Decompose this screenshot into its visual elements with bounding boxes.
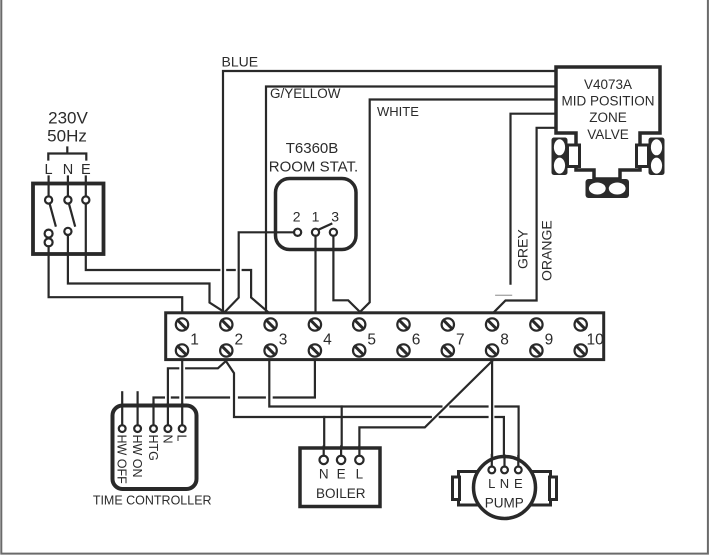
wire GREY from valve (511, 114, 557, 284)
terminal 10 screws (575, 318, 587, 330)
valve left connector (568, 145, 580, 167)
svg-text:N: N (500, 476, 509, 491)
wire N supply to terminal 2 (68, 235, 224, 312)
stat terminal 2 (294, 229, 301, 236)
boiler wire entries (324, 447, 360, 456)
wire ORANGE from valve to terminal 8 (494, 128, 556, 312)
pump left flange (459, 472, 478, 506)
terminal 1 screws (176, 318, 188, 330)
wire stat 2 to terminal 2 (neutral) (225, 232, 294, 311)
zone valve V4073A box and body (556, 67, 660, 179)
boiler box (300, 448, 380, 507)
pump terminals L N E (488, 467, 495, 474)
svg-text:10: 10 (587, 332, 605, 349)
svg-text:HW OFF: HW OFF (115, 435, 129, 485)
controller wire entries HTG N L (154, 404, 183, 425)
svg-text:1: 1 (312, 209, 320, 225)
svg-text:8: 8 (500, 332, 509, 349)
valve bottom union nut (586, 179, 630, 198)
svg-text:MID POSITION: MID POSITION (561, 94, 654, 109)
isolator terminal N (67, 177, 69, 197)
svg-text:E: E (514, 476, 523, 491)
svg-text:V4073A: V4073A (584, 77, 632, 92)
terminal 8 screws (486, 318, 498, 330)
svg-text:G/YELLOW: G/YELLOW (270, 86, 341, 101)
terminal 6 screws (397, 318, 409, 330)
svg-text:L: L (488, 476, 495, 491)
svg-text:ORANGE: ORANGE (539, 220, 555, 281)
stat switch blade 1-3 (318, 224, 331, 230)
pump wire entries (492, 455, 519, 467)
svg-text:TIME CONTROLLER: TIME CONTROLLER (93, 494, 212, 508)
controller terminal labels (115, 435, 189, 485)
svg-text:E: E (337, 467, 346, 482)
svg-text:HTG: HTG (146, 435, 160, 461)
terminal 2 screws (220, 318, 232, 330)
wire boiler L to terminal 8 (diagonal) (359, 361, 492, 457)
stat terminal numbers 2 1 3 (293, 209, 339, 225)
isolator lower contact N (64, 228, 71, 235)
supply terminal labels L N E (45, 162, 91, 178)
earth distribution: terminal 3 to boiler E and pump E (269, 361, 518, 465)
room stat labels (269, 140, 358, 175)
svg-text:L: L (175, 435, 189, 442)
svg-text:N: N (160, 435, 174, 444)
isolator switch blade N (69, 204, 75, 226)
svg-text:3: 3 (279, 332, 288, 349)
supply bracket (48, 148, 86, 160)
svg-text:T6360B: T6360B (286, 140, 339, 157)
terminal 4 screws (309, 318, 321, 330)
svg-text:2: 2 (293, 209, 301, 225)
terminal 3 screws (264, 318, 276, 330)
wire E supply to terminal 3 (hops over blue and stat wires) (86, 204, 268, 312)
svg-text:BLUE: BLUE (222, 54, 259, 70)
isolator switch blade L (50, 204, 56, 226)
isolator terminal E (85, 177, 87, 197)
wire stat 3 to terminal 5 (333, 236, 360, 312)
valve right union nut (649, 138, 665, 176)
svg-text:1: 1 (190, 332, 199, 349)
valve left union nut (552, 138, 568, 176)
svg-text:PUMP: PUMP (485, 496, 524, 511)
room stat T6360B box (276, 179, 357, 250)
isolator switch box (33, 184, 104, 255)
svg-text:L: L (356, 467, 364, 482)
terminal 9 screws (530, 318, 542, 330)
wire BLUE : valve neutral to terminal 2 (223, 71, 556, 312)
svg-text:HW ON: HW ON (130, 435, 144, 478)
controller terminals (119, 425, 126, 432)
pump body (474, 457, 536, 519)
wire L supply to terminal 1 (49, 246, 183, 311)
wire controller L to terminal 1 (181, 361, 183, 426)
svg-text:ROOM STAT.: ROOM STAT. (269, 158, 358, 175)
terminal strip (166, 313, 604, 360)
isolator lower contact L (double) (45, 230, 53, 238)
svg-text:5: 5 (367, 332, 376, 349)
terminal 7 screws (442, 318, 454, 330)
wire stat 1 to terminal 4 (314, 236, 316, 312)
svg-text:7: 7 (456, 332, 465, 349)
svg-text:N: N (319, 467, 329, 482)
svg-text:GREY: GREY (515, 229, 531, 269)
wire controller N to terminal 2 (hops controller L wire) (168, 361, 226, 425)
time controller box (113, 406, 197, 490)
isolator terminal L (47, 177, 49, 197)
controller stub HW ON (137, 392, 139, 425)
svg-text:3: 3 (331, 209, 339, 225)
svg-text:VALVE: VALVE (587, 127, 629, 142)
wire HTG: terminal 4 to controller (hops N,L,neutral,earth wires) (154, 361, 315, 426)
wire WHITE : valve to terminal 5 (360, 100, 556, 313)
svg-text:BOILER: BOILER (316, 486, 366, 501)
boiler terminals N E L (320, 456, 328, 464)
stat terminal 1 (312, 229, 319, 236)
wire G/YELLOW : valve earth to terminal 3 (266, 87, 556, 313)
svg-text:2: 2 (235, 332, 244, 349)
svg-text:6: 6 (412, 332, 421, 349)
pump right flange (532, 472, 551, 506)
neutral distribution: terminal 2 to boiler N and pump N (226, 361, 504, 464)
controller stub HW OFF (121, 392, 123, 425)
valve right connector (637, 145, 649, 167)
stat terminal 3 (330, 229, 337, 236)
svg-text:230V: 230V (48, 109, 88, 128)
svg-text:50Hz: 50Hz (47, 127, 87, 146)
wire pump L to terminal 8 (491, 361, 493, 465)
svg-text:ZONE: ZONE (589, 110, 627, 125)
supply label 230V 50Hz (47, 109, 88, 146)
svg-text:4: 4 (323, 332, 332, 349)
terminal 5 screws (353, 318, 365, 330)
svg-text:9: 9 (545, 332, 554, 349)
svg-text:WHITE: WHITE (377, 104, 419, 119)
